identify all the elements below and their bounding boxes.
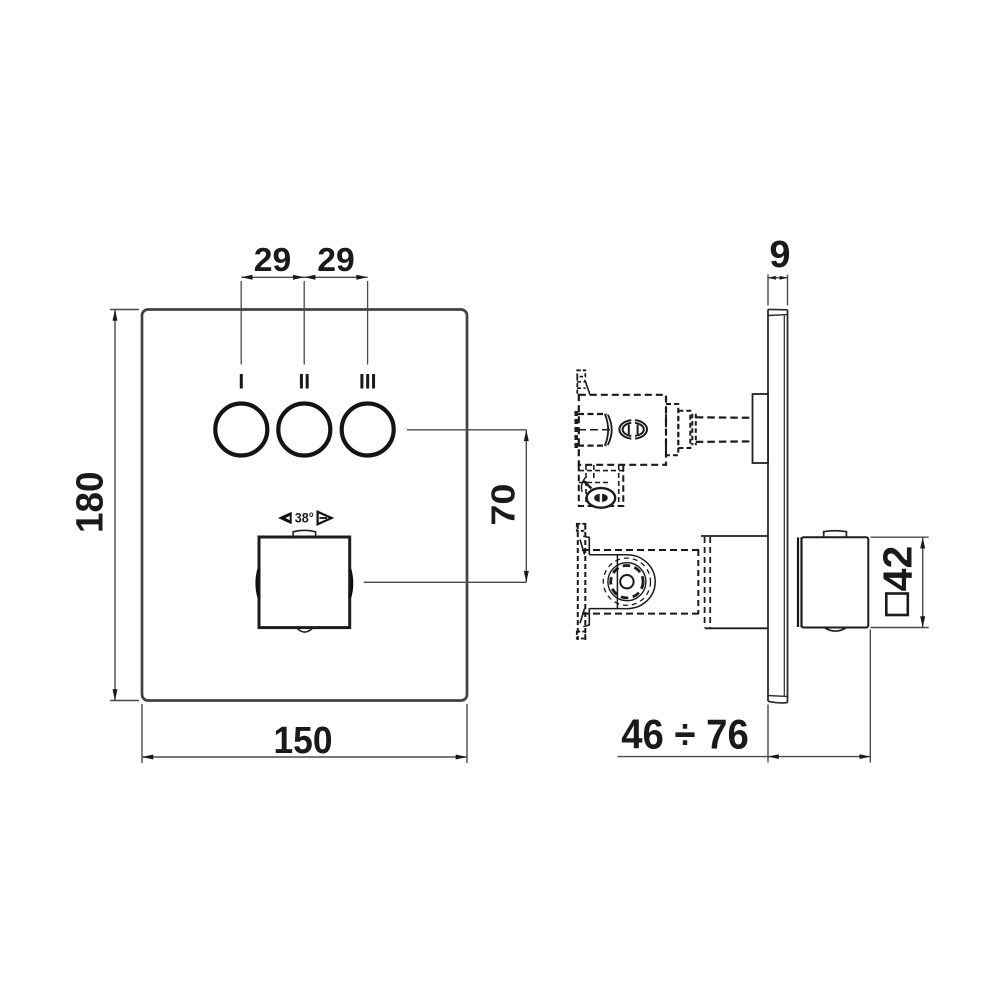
handle top tab side — [824, 531, 847, 538]
svg-text:70: 70 — [486, 484, 523, 526]
lower wall flange dashed strip — [577, 524, 586, 640]
handle left bump — [257, 569, 259, 598]
screw ellipse on elbow — [581, 478, 615, 508]
shaft dashed — [696, 416, 753, 419]
svg-text:III: III — [359, 371, 377, 394]
dimension 29-29 arrowheads — [241, 275, 367, 280]
upper flange clip top — [577, 370, 590, 395]
svg-text:150: 150 — [274, 720, 333, 762]
upper mounting boss — [753, 394, 769, 463]
dimension 42 — [871, 537, 929, 627]
svg-text:II: II — [298, 371, 310, 394]
handle right bump — [350, 569, 352, 598]
knob III circle — [342, 404, 394, 456]
svg-text:I: I — [238, 371, 244, 394]
dimension 180 — [110, 310, 139, 701]
square handle front — [259, 537, 350, 628]
handle body side — [802, 537, 869, 627]
front plate outline — [142, 310, 467, 701]
svg-text:9: 9 — [769, 234, 790, 276]
handle bottom bump — [296, 628, 313, 632]
thermostatic cartridge dome — [589, 555, 655, 609]
38 degree marking right arrow — [318, 512, 332, 525]
dimension 46-76 — [618, 630, 871, 763]
handle top tab — [293, 530, 316, 537]
handle base ring — [797, 537, 799, 627]
svg-text:38°: 38° — [295, 511, 314, 526]
elbow below upper body — [579, 465, 624, 506]
dimension 70 — [364, 430, 527, 583]
dimension 150 — [142, 704, 467, 763]
stepped connector dashed — [666, 404, 696, 455]
38 degree marking left arrow — [278, 512, 292, 525]
handle bottom bump side — [824, 628, 846, 632]
svg-text:180: 180 — [69, 472, 111, 534]
svg-text:29: 29 — [254, 241, 292, 278]
lower flange solid edges — [580, 536, 589, 626]
knob II circle — [278, 404, 330, 456]
upper valve body dashed outline — [579, 395, 666, 465]
dimension 29-29 lines — [241, 277, 367, 364]
sleeve — [701, 536, 768, 628]
upper capsule (handle hidden) — [576, 411, 613, 448]
svg-text:46 ÷ 76: 46 ÷ 76 — [621, 711, 749, 758]
oval detail (screw head) — [619, 418, 647, 441]
knob I circle — [215, 404, 267, 456]
dimension 9 — [768, 275, 788, 306]
square symbol for 42 — [886, 594, 908, 616]
wall plate slab — [768, 309, 788, 703]
svg-text:42: 42 — [875, 546, 921, 592]
lower valve body dashed — [582, 550, 702, 614]
svg-text:29: 29 — [317, 241, 355, 278]
